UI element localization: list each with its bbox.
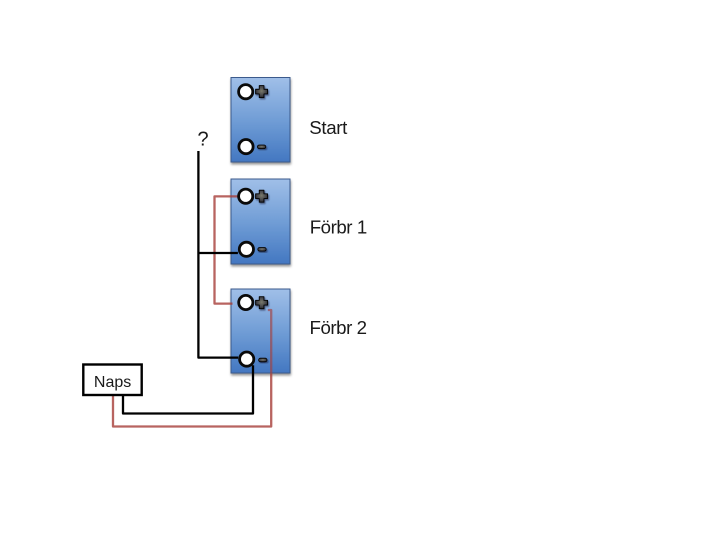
- terminal + circle (B3 Förbr 2): [239, 295, 253, 309]
- minus sign label (B2 Förbr 1): [258, 248, 266, 252]
- box Naps (solar panel): [83, 365, 141, 396]
- svg-text:Start: Start: [309, 117, 348, 138]
- terminal + circle (B1 Start): [239, 85, 253, 99]
- wire black: main bus from node ? down past B2 minus to B3 minus: [198, 151, 238, 358]
- wire red: B3 plus terminal down right side to Naps (segment over battery body): [268, 310, 271, 374]
- svg-text:Naps: Naps: [94, 374, 131, 391]
- terminal - circle (B1 Start): [239, 140, 253, 154]
- label Förbr 2: [310, 317, 367, 338]
- minus sign label (B1 Start): [257, 145, 265, 149]
- battery B1 "Start" body: [231, 78, 290, 163]
- label Naps: [94, 374, 131, 391]
- plus sign label (B2 Förbr 1): [256, 190, 268, 202]
- wire red: B3 plus terminal down right side to Naps (segment over background): [113, 374, 271, 427]
- terminal + circle (B2 Förbr 1): [239, 189, 253, 203]
- battery B3 "Förbr 2" body: [231, 289, 290, 373]
- terminal - circle (B2 Förbr 1): [239, 242, 253, 256]
- wire black: B3 minus terminal down to Naps: [123, 365, 253, 413]
- plus sign label (B3 Förbr 2): [256, 297, 268, 309]
- plus sign label (B1 Start): [256, 86, 268, 98]
- svg-text:Förbr 1: Förbr 1: [310, 217, 367, 238]
- battery B2 "Förbr 1" body: [231, 179, 290, 264]
- label Start: [309, 117, 348, 138]
- minus sign label (B3 Förbr 2): [259, 358, 267, 362]
- wire red: B2 plus terminal to B3 plus terminal: [215, 196, 239, 303]
- svg-text:?: ?: [198, 129, 209, 151]
- label Förbr 1: [310, 217, 367, 238]
- node ? (open end of black bus): [198, 129, 209, 151]
- wire black: branch from main bus to B2 minus terminal: [198, 252, 238, 254]
- terminal - circle (B3 Förbr 2): [240, 352, 254, 366]
- svg-text:Förbr 2: Förbr 2: [310, 317, 367, 338]
